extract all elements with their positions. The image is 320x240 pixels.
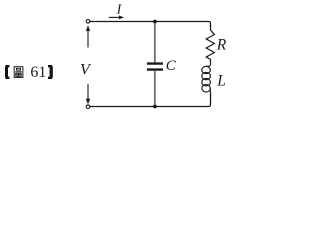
wire capacitor branch lower (154, 71, 156, 107)
resistor R zigzag (206, 28, 214, 65)
node bottom junction (153, 105, 157, 109)
inductor L coil (202, 65, 211, 93)
voltage arrow down (86, 84, 90, 104)
wire capacitor branch upper (154, 22, 156, 63)
wire bottom horizontal (90, 92, 211, 107)
svg-text:R: R (216, 36, 227, 53)
caption bracket left 【 (6, 66, 9, 78)
capacitor C plates (147, 64, 163, 70)
terminal bottom (open circle) (86, 105, 90, 109)
svg-text:C: C (166, 58, 177, 74)
svg-text:L: L (216, 72, 226, 89)
svg-text:61: 61 (30, 64, 46, 81)
voltage arrow up (86, 25, 90, 47)
node top junction (153, 20, 157, 24)
terminal top (open circle) (86, 20, 90, 24)
wire top horizontal (90, 22, 211, 29)
caption bracket right 】 (48, 66, 52, 78)
caption glyph 圖 (14, 67, 23, 78)
current arrow I (109, 15, 124, 19)
